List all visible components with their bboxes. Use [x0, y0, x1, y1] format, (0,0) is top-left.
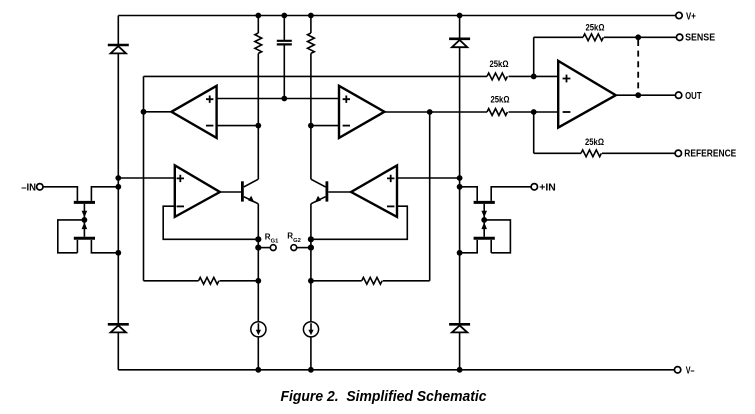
wire left rail upper (V+ corner to diode D1): [117, 16, 119, 45]
wire M4 source stub right: [490, 240, 492, 253]
wire A1 output to left feedback line: [144, 111, 172, 113]
transistor Q2 (npn, right): [311, 179, 351, 204]
diode D1 (top left, cathode up): [108, 45, 129, 53]
op-amp A2 (upper right buffer, points right): [339, 86, 384, 138]
wire left rail to A4 + input: [118, 177, 175, 179]
wire A3 reference dropper: [533, 112, 535, 153]
diode D4 (bottom right, cathode up): [449, 324, 470, 332]
wire M2 drain to left rail: [91, 240, 118, 253]
op-amp A3 (output amp, points right): [558, 61, 616, 128]
svg-text:–IN: –IN: [21, 182, 36, 193]
wire +IN to protection mosfet M3: [491, 187, 531, 201]
wire A3 output: [616, 94, 676, 96]
node C1 bottom junction: [281, 96, 287, 102]
wire left rail lower (diode D3 to V- rail corner): [117, 332, 119, 369]
node A2 output junction: [427, 109, 433, 115]
wire A3 sense feedback riser: [533, 37, 535, 76]
diode D2 (top right, cathode up): [449, 39, 470, 47]
resistor R5 25k (A3 + input): [487, 73, 507, 80]
wire A4 - input loop to RG1 node: [163, 206, 258, 239]
wire V+ top rail: [118, 15, 676, 17]
op-amp A5 (lower right gain amp, points left): [351, 165, 397, 217]
current source I2: [303, 322, 318, 337]
svg-text:V+: V+: [686, 11, 696, 22]
svg-text:25kΩ: 25kΩ: [585, 137, 604, 147]
wire M2 source stub left: [76, 240, 78, 253]
wire R2 node to A2 - input: [311, 125, 339, 127]
resistor R8 25k (reference): [581, 150, 601, 157]
node V+ rail / right rail junction: [457, 13, 463, 19]
node left rail / A4 + input junction: [115, 175, 121, 181]
mosfet M3 (input protection, +IN upper): [474, 202, 495, 220]
node OUT junction: [635, 92, 641, 98]
terminal -IN: [37, 184, 43, 190]
op-amp A1 (upper left buffer, points left): [171, 86, 216, 138]
wire I2 to V- rail: [310, 337, 312, 370]
wire right rail upper (V+ rail to diode D2): [459, 16, 461, 38]
node right rail / M4 junction: [457, 250, 463, 256]
wire right rail middle (diode D2 to diode D4): [459, 47, 461, 323]
terminal RG2: [291, 245, 297, 251]
wire left rail (diode D1 to bottom diode D3): [117, 53, 119, 323]
node reference / A3 - input junction: [531, 109, 537, 115]
node M1/M2 body junction: [82, 217, 88, 223]
terminal RG1: [270, 245, 276, 251]
resistor R1 (top, vertical): [255, 16, 262, 180]
node RG1 terminal junction: [255, 245, 261, 251]
wire RG1 emitter drop (Q1 emitter to current source I1): [257, 204, 259, 322]
node V+ rail / R2 junction: [308, 13, 314, 19]
terminal V-: [674, 367, 680, 373]
op-amp A4 (lower left gain amp, points right): [175, 165, 220, 217]
node R2 / A2 - input junction: [308, 123, 314, 129]
node right rail / +IN junction: [457, 184, 463, 190]
mosfet M1 (input protection, -IN upper): [74, 202, 95, 220]
wire I1 to V- rail: [257, 337, 259, 370]
wire R6 to A3 - input: [509, 111, 559, 113]
node RG2 terminal junction: [308, 245, 314, 251]
wire M1 drain to left rail: [91, 187, 118, 201]
node V- rail / I2 junction: [308, 367, 314, 373]
wire A1 - input to R1 node: [217, 125, 259, 127]
node RG1 feedback junction: [255, 236, 261, 242]
resistor R4 (right gain feedback): [311, 277, 430, 284]
node left rail / -IN junction: [115, 184, 121, 190]
wire right body-dot loop: [484, 220, 510, 253]
wire M4 drain to right rail: [460, 240, 478, 253]
wire right rail lower (diode D4 to V- rail): [459, 332, 461, 369]
diode D3 (bottom left, cathode up): [108, 324, 129, 332]
resistor R2 (top, vertical): [308, 16, 315, 180]
node V+ rail / R1 junction: [255, 13, 261, 19]
terminal SENSE: [676, 34, 682, 40]
node A1 output junction: [141, 109, 147, 115]
node RG2 feedback junction: [308, 236, 314, 242]
wire A1 feedback top (node to A3 + input): [144, 75, 488, 77]
svg-text:+IN: +IN: [539, 183, 556, 194]
wire A2 output to A3 - input: [384, 111, 487, 113]
node left rail / M2 junction: [115, 250, 121, 256]
node right rail / A5 + input junction: [457, 175, 463, 181]
svg-text:Figure 2. Simplified Schemati: Figure 2. Simplified Schematic: [281, 389, 487, 405]
svg-text:V–: V–: [686, 365, 695, 376]
wire R8 to REFERENCE terminal: [602, 152, 675, 154]
node V- rail / I1 junction: [255, 367, 261, 373]
wire RG2 emitter drop (Q2 emitter to current source I2): [310, 204, 312, 322]
node SENSE junction: [635, 34, 641, 40]
resistor R7 25k (sense feedback): [583, 34, 603, 41]
wire left body-dot loop: [58, 220, 85, 253]
transistor Q1 (npn, left): [220, 179, 258, 204]
mosfet M2 (input protection, -IN lower): [74, 220, 95, 238]
wire sense feedback to R7: [534, 36, 583, 38]
node R1 / A1 - input junction: [255, 123, 261, 129]
wire A5 + input to right rail: [397, 177, 460, 179]
svg-text:25kΩ: 25kΩ: [586, 23, 605, 33]
wire RG2 terminal to node: [297, 247, 311, 249]
wire V- bottom rail: [118, 369, 674, 371]
wire R7 to SENSE terminal: [604, 36, 676, 38]
wire RG1 node to terminal: [258, 247, 270, 249]
node M3/M4 body junction: [481, 217, 487, 223]
wire left feedback vertical: [143, 76, 145, 280]
capacitor C1 (top, vertical): [277, 16, 292, 99]
wire reference node to R8: [534, 152, 581, 154]
node R4 / RG2 emitter junction: [308, 278, 314, 284]
current source I1: [251, 322, 266, 337]
terminal OUT: [675, 92, 681, 98]
mosfet M4 (input protection, +IN lower): [474, 220, 495, 238]
resistor R3 (left gain feedback): [144, 277, 259, 284]
node R3 / RG1 emitter junction: [255, 278, 261, 284]
wire right feedback vertical: [429, 112, 431, 281]
wire dashed sense-to-output: [637, 40, 639, 92]
terminal V+: [676, 12, 682, 18]
resistor R6 25k (A3 - input): [487, 109, 507, 116]
terminal +IN: [531, 184, 537, 190]
svg-text:REFERENCE: REFERENCE: [684, 149, 736, 160]
terminal REFERENCE: [675, 150, 681, 156]
node V- rail / right rail junction: [457, 367, 463, 373]
svg-text:25kΩ: 25kΩ: [490, 59, 509, 69]
node sense feedback / A3 + input junction: [531, 74, 537, 80]
svg-text:25kΩ: 25kΩ: [491, 95, 510, 105]
wire A5 - input loop to RG2 node: [311, 206, 407, 239]
wire -IN to protection mosfet M1: [43, 187, 77, 201]
wire buffer + inputs (A1 to A2 common line): [217, 98, 339, 100]
node V+ rail / C1 junction: [281, 13, 287, 19]
svg-text:SENSE: SENSE: [685, 33, 715, 44]
wire M3 drain to right rail: [460, 187, 478, 201]
wire R5 to A3 + input: [509, 75, 559, 77]
svg-text:OUT: OUT: [685, 91, 702, 102]
